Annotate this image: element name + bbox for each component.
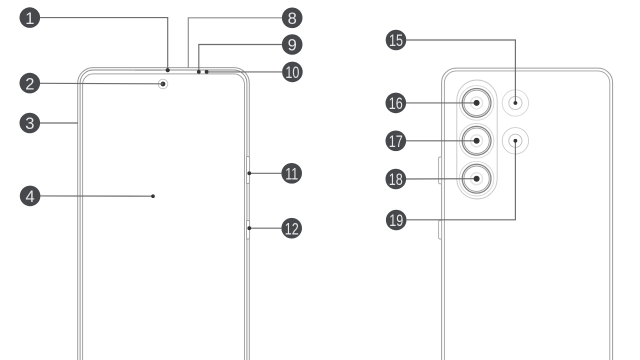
- svg-text:17: 17: [389, 133, 403, 151]
- svg-text:3: 3: [25, 115, 34, 133]
- svg-text:12: 12: [285, 220, 299, 238]
- svg-text:11: 11: [285, 166, 298, 184]
- svg-text:8: 8: [288, 10, 297, 28]
- svg-text:15: 15: [389, 32, 403, 50]
- svg-text:9: 9: [288, 37, 297, 55]
- svg-text:10: 10: [285, 64, 299, 82]
- svg-text:16: 16: [389, 95, 403, 113]
- svg-text:2: 2: [25, 75, 34, 93]
- svg-text:18: 18: [389, 171, 403, 189]
- svg-text:4: 4: [26, 188, 35, 206]
- svg-text:19: 19: [389, 212, 403, 230]
- svg-text:1: 1: [25, 10, 34, 28]
